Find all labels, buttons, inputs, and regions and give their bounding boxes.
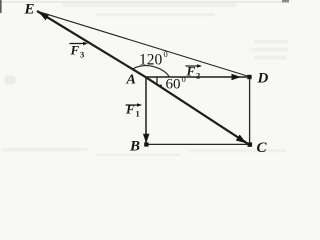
- arrowhead of F2 pointing right: [232, 74, 242, 81]
- svg-text:D: D: [257, 71, 269, 87]
- left edge scan bar: [0, 0, 2, 13]
- svg-text:0: 0: [182, 74, 186, 84]
- svg-text:60: 60: [166, 77, 181, 93]
- svg-text:2: 2: [196, 71, 200, 81]
- svg-text:0: 0: [164, 49, 168, 59]
- label: angle 120 degrees: [139, 49, 168, 69]
- svg-text:120: 120: [139, 52, 163, 69]
- label: vector F3 with overline arrow: [70, 42, 89, 60]
- svg-text:E: E: [24, 2, 35, 18]
- vector F1: vertical line A to B: [145, 77, 147, 143]
- top-right corner scan mark: [282, 0, 289, 2]
- label: point E: [24, 2, 35, 18]
- wire: horizontal line B to C: [148, 143, 251, 145]
- angle arc 120 degrees at A: [132, 66, 169, 77]
- label: point C: [257, 140, 268, 156]
- wire: thick line A to C (resultant): [146, 77, 248, 143]
- wire: thin line E to D: [38, 11, 250, 76]
- arrowhead of F1 pointing down: [143, 134, 150, 144]
- angle mark 60 degrees at A (small bracket): [157, 77, 162, 85]
- label: point A: [126, 73, 136, 88]
- faint left margin mark: [4, 75, 16, 85]
- faint ghost-print smudges from scan: [2, 3, 289, 156]
- vector F2: horizontal line A to D: [146, 76, 247, 78]
- svg-text:C: C: [257, 140, 268, 156]
- wire: thick line E to A: [37, 11, 146, 77]
- svg-text:F: F: [70, 43, 80, 58]
- node C: filled point: [248, 142, 253, 146]
- label: vector F2 with overline arrow: [186, 64, 203, 81]
- svg-text:F: F: [125, 102, 135, 117]
- label: vector F1 with overline arrow: [125, 102, 142, 119]
- svg-text:B: B: [129, 139, 140, 155]
- wire: vertical line D to C: [249, 78, 251, 145]
- arrowhead at E (vector F3): [37, 9, 50, 21]
- scanned page background: [0, 0, 289, 156]
- svg-text:3: 3: [80, 50, 84, 60]
- node B: filled point: [144, 142, 148, 146]
- label: angle 60 degrees: [166, 74, 186, 93]
- label: point B: [129, 139, 140, 155]
- svg-text:1: 1: [136, 109, 140, 119]
- faint top scan line: [0, 2, 289, 3]
- arrowhead near C (resultant arrow): [236, 134, 249, 146]
- label: point D: [257, 71, 269, 87]
- svg-text:A: A: [126, 73, 136, 88]
- node D: filled point: [247, 75, 251, 79]
